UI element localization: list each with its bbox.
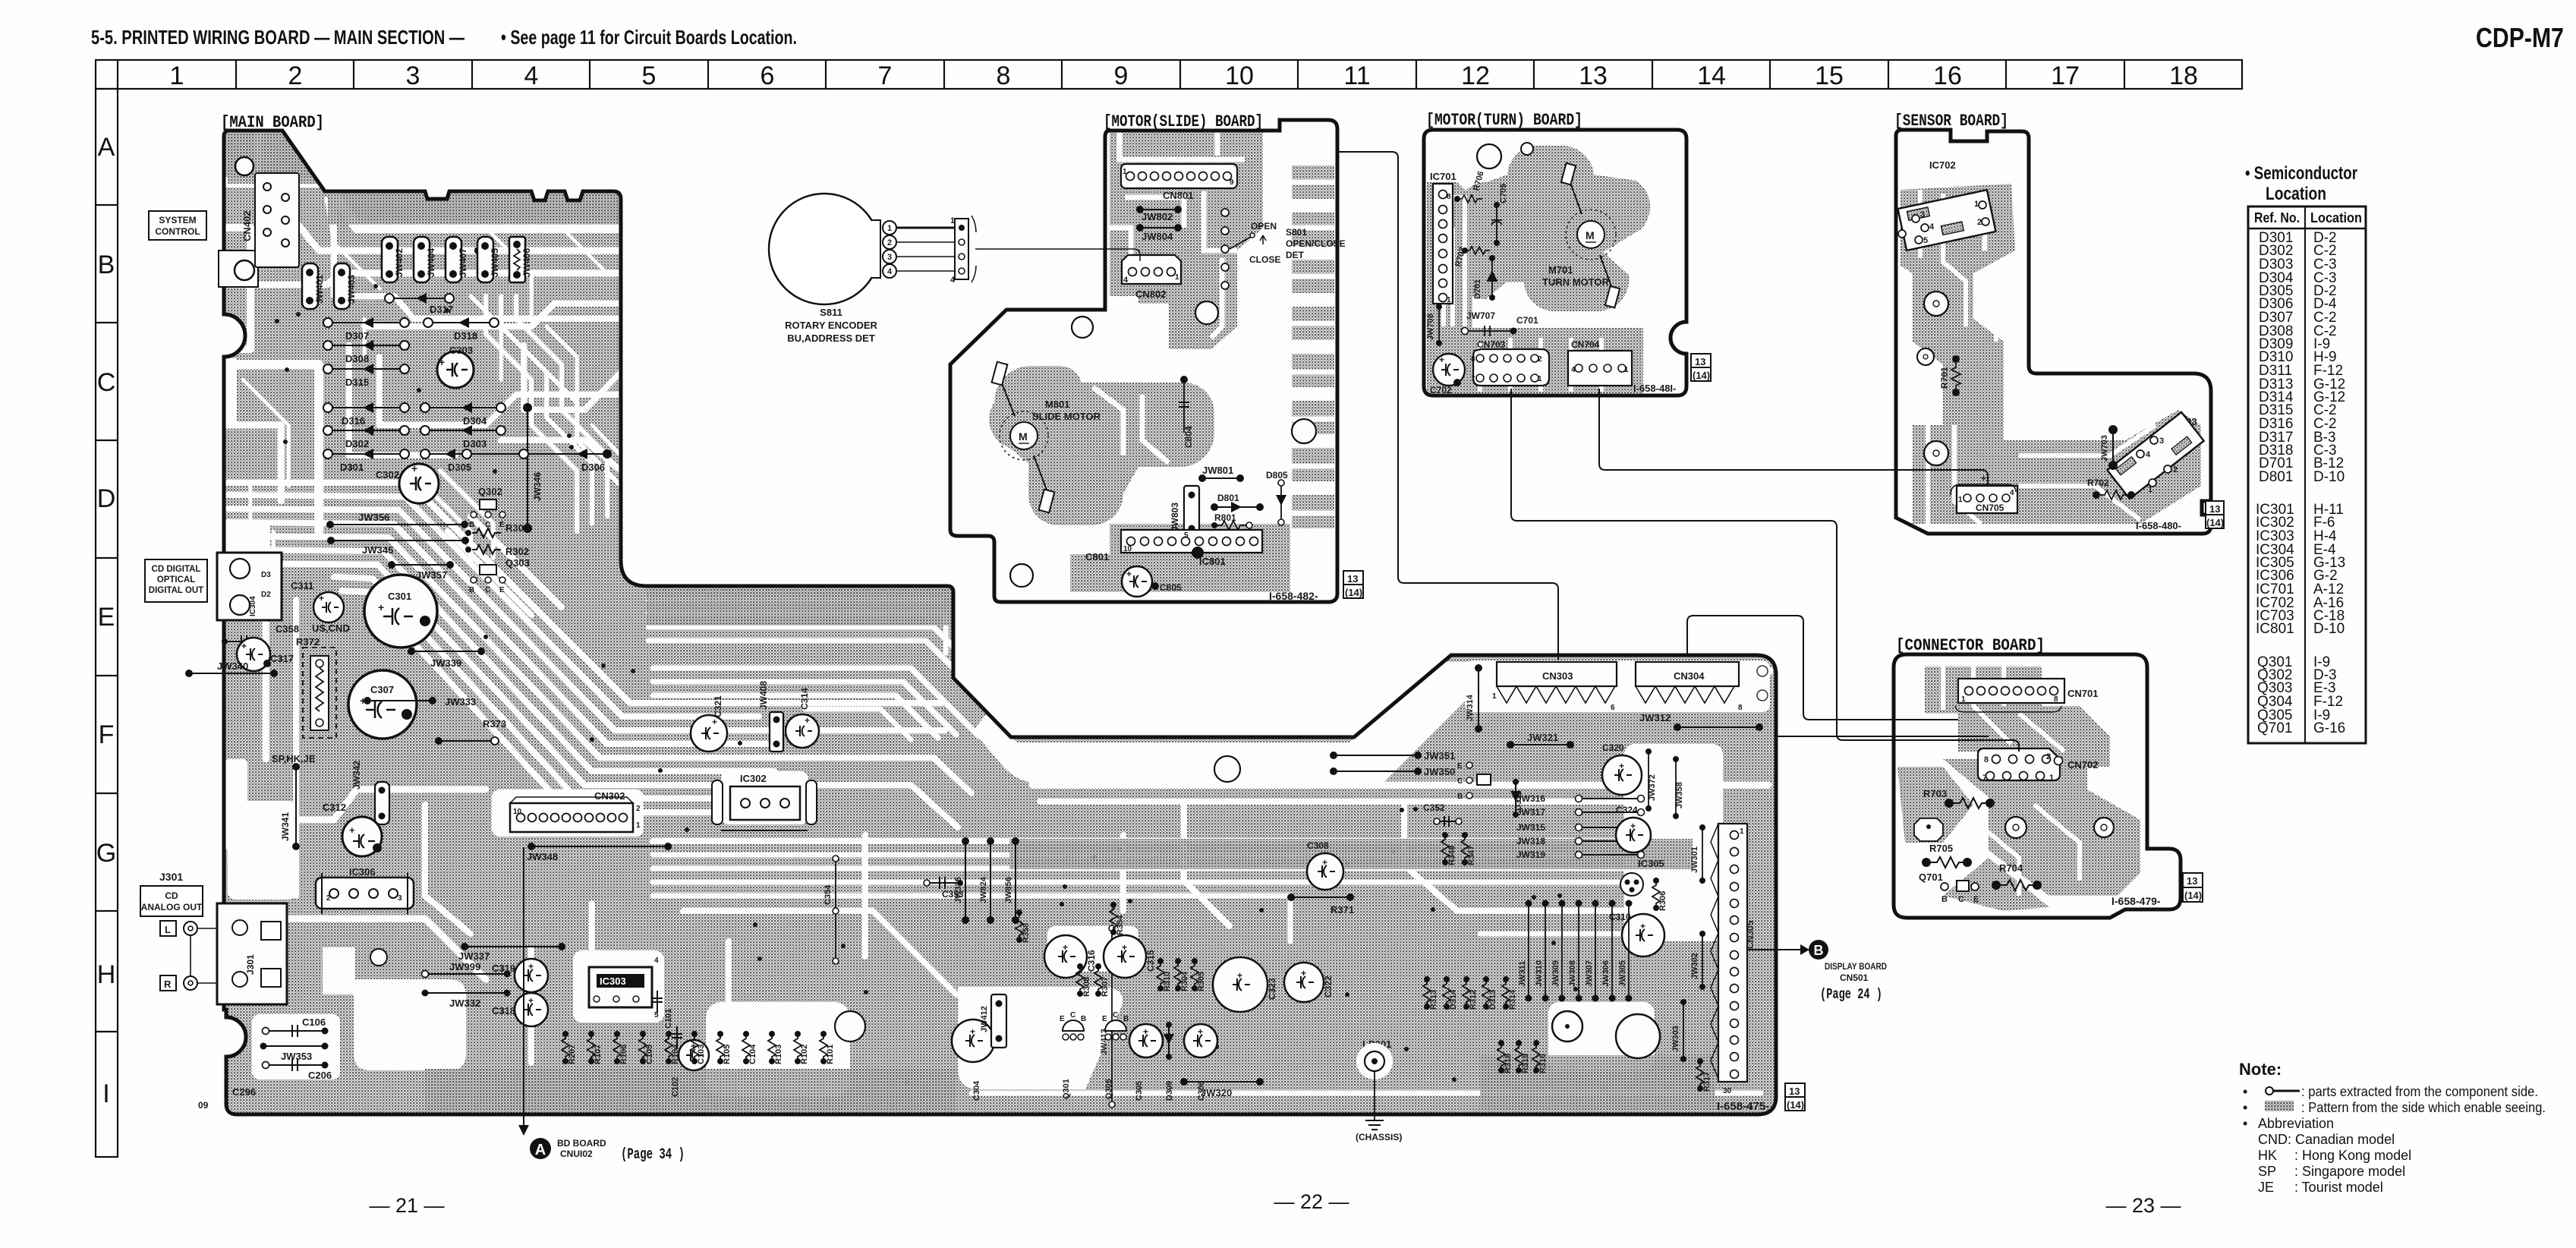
transistor Q305 bbox=[1105, 1020, 1126, 1031]
svg-text:R106: R106 bbox=[619, 1045, 628, 1064]
svg-text:C: C bbox=[485, 586, 490, 594]
svg-text:— 22 —: — 22 — bbox=[1274, 1190, 1349, 1213]
corner pads top-right bbox=[1757, 666, 1768, 676]
svg-text:2: 2 bbox=[288, 61, 303, 90]
connector CN305 bbox=[1718, 824, 1747, 1082]
svg-text:JW309: JW309 bbox=[1551, 960, 1560, 987]
svg-text:3: 3 bbox=[2159, 436, 2164, 446]
white trace channels: bottom section bbox=[228, 600, 1768, 1093]
svg-text:R306: R306 bbox=[1658, 891, 1667, 911]
svg-text:C: C bbox=[1457, 777, 1463, 786]
capacitor C320 bbox=[1602, 755, 1642, 795]
svg-text:Location: Location bbox=[2266, 184, 2326, 204]
slide board holes bbox=[1072, 317, 1093, 338]
svg-text:D305: D305 bbox=[448, 462, 471, 473]
jumper JW407 bbox=[446, 237, 468, 282]
turn board body bbox=[1424, 130, 1686, 396]
wire: CN704 to CN705 bbox=[1599, 389, 1988, 486]
svg-text:+: + bbox=[411, 462, 417, 474]
svg-text:R703: R703 bbox=[1923, 788, 1947, 799]
svg-text:[CONNECTOR BOARD]: [CONNECTOR BOARD] bbox=[1896, 636, 2045, 655]
mounting hole pad below CN402 bbox=[219, 251, 258, 287]
connector CN303 bbox=[1497, 662, 1617, 686]
capacitor C804 bbox=[1183, 380, 1185, 433]
svg-text:4: 4 bbox=[1929, 222, 1935, 232]
svg-text:• Semiconductor: • Semiconductor bbox=[2245, 163, 2357, 184]
svg-text:R313: R313 bbox=[1429, 990, 1438, 1010]
capacitor C206 bbox=[266, 1064, 325, 1066]
svg-text:C353: C353 bbox=[942, 889, 964, 900]
svg-text:CD DIGITAL: CD DIGITAL bbox=[152, 565, 201, 574]
svg-text:ANALOG OUT: ANALOG OUT bbox=[141, 902, 203, 912]
svg-text:D-10: D-10 bbox=[2313, 469, 2345, 485]
svg-text:JW412: JW412 bbox=[980, 1006, 989, 1032]
svg-text:C702: C702 bbox=[1430, 385, 1452, 396]
semiconductor location table frame bbox=[2248, 206, 2366, 743]
svg-text:R: R bbox=[164, 979, 172, 990]
jumper JW406 with resistor bbox=[509, 237, 532, 282]
svg-text:1: 1 bbox=[1492, 692, 1497, 701]
svg-text:CN402: CN402 bbox=[241, 211, 253, 241]
svg-text:R702: R702 bbox=[2087, 477, 2109, 488]
diode D318 bbox=[424, 317, 499, 342]
svg-text:JW824: JW824 bbox=[979, 876, 988, 903]
svg-text:4: 4 bbox=[1571, 366, 1576, 374]
svg-text:7: 7 bbox=[1982, 774, 1987, 783]
capacitor C304 bbox=[952, 1020, 994, 1062]
turn board holes bbox=[1477, 144, 1501, 169]
svg-text:: Hong Kong model: : Hong Kong model bbox=[2294, 1148, 2411, 1163]
svg-text:CND: Canadian model: CND: Canadian model bbox=[2258, 1132, 2395, 1147]
jumper JW340 bbox=[189, 673, 274, 674]
svg-text:1: 1 bbox=[950, 216, 955, 225]
svg-text:4: 4 bbox=[654, 956, 659, 965]
svg-text:12: 12 bbox=[1461, 61, 1490, 90]
main board body (copper pattern) bbox=[224, 131, 1776, 1114]
svg-text:JW358: JW358 bbox=[1675, 782, 1684, 808]
svg-text:IC303: IC303 bbox=[600, 975, 626, 987]
resistor R305 bbox=[1191, 961, 1198, 988]
jumper JW312 bbox=[1677, 726, 1759, 728]
svg-text:CN701: CN701 bbox=[2067, 688, 2098, 699]
svg-text:Q303: Q303 bbox=[505, 557, 530, 569]
svg-text:C308: C308 bbox=[1307, 840, 1329, 851]
svg-text:Q301: Q301 bbox=[1062, 1079, 1071, 1099]
svg-text:JW332: JW332 bbox=[449, 997, 480, 1009]
svg-text:C: C bbox=[97, 368, 116, 397]
svg-text:D306: D306 bbox=[581, 462, 605, 473]
svg-text:C701: C701 bbox=[1516, 315, 1538, 326]
svg-text:C104: C104 bbox=[748, 1044, 757, 1064]
svg-text:1: 1 bbox=[636, 821, 641, 830]
svg-text:JW321: JW321 bbox=[1527, 732, 1558, 743]
svg-text:Q305: Q305 bbox=[1104, 1079, 1113, 1099]
svg-text:C315: C315 bbox=[1145, 950, 1156, 972]
svg-text:D309: D309 bbox=[1165, 1081, 1174, 1101]
svg-text:JW316: JW316 bbox=[1516, 793, 1545, 804]
svg-text:: parts extracted from the com: : parts extracted from the component sid… bbox=[2301, 1084, 2538, 1099]
svg-text:C311: C311 bbox=[291, 580, 313, 591]
svg-text:SLIDE MOTOR: SLIDE MOTOR bbox=[1032, 411, 1101, 422]
svg-text:B: B bbox=[1123, 1015, 1129, 1023]
left ruler grid bbox=[96, 89, 118, 1157]
svg-text:2: 2 bbox=[1538, 355, 1542, 364]
switch S801 open/close detect bbox=[1221, 209, 1229, 216]
svg-text:D318: D318 bbox=[454, 330, 477, 342]
sheet ref box 13/(14) slide board bbox=[1343, 571, 1363, 585]
svg-text:C: C bbox=[1070, 1011, 1075, 1020]
IC303 bbox=[589, 967, 652, 1007]
jumper JW345 bbox=[327, 537, 469, 556]
svg-text:(14): (14) bbox=[2206, 517, 2224, 528]
svg-text:+: + bbox=[1439, 355, 1444, 365]
svg-text:JW803: JW803 bbox=[1170, 503, 1180, 531]
svg-text:09: 09 bbox=[198, 1100, 209, 1111]
svg-text:R319: R319 bbox=[1521, 1054, 1530, 1073]
svg-text:4: 4 bbox=[1123, 276, 1129, 285]
svg-text:C352: C352 bbox=[1423, 802, 1445, 813]
svg-text:DIGITAL OUT: DIGITAL OUT bbox=[149, 586, 203, 595]
svg-text:CN801: CN801 bbox=[1163, 190, 1193, 201]
svg-text:C805: C805 bbox=[1160, 582, 1182, 593]
svg-text:9: 9 bbox=[1114, 61, 1129, 90]
svg-text:ROTARY ENCODER: ROTARY ENCODER bbox=[785, 320, 877, 331]
connector CN802 bbox=[1122, 255, 1181, 284]
svg-text:(Page 34 ): (Page 34 ) bbox=[621, 1146, 685, 1164]
svg-text:JW804: JW804 bbox=[1142, 231, 1173, 242]
svg-text:R316: R316 bbox=[1538, 1054, 1548, 1073]
svg-text:R101: R101 bbox=[826, 1045, 835, 1064]
svg-text:(14): (14) bbox=[2184, 890, 2202, 901]
svg-text:JW302: JW302 bbox=[1690, 953, 1699, 979]
svg-text:Abbreviation: Abbreviation bbox=[2258, 1116, 2334, 1131]
svg-text:CN802: CN802 bbox=[1135, 288, 1166, 300]
svg-text:CN304: CN304 bbox=[1674, 670, 1705, 682]
svg-text:D302: D302 bbox=[345, 438, 369, 449]
svg-text:+: + bbox=[378, 601, 384, 613]
svg-text:B: B bbox=[1457, 793, 1463, 801]
white channels in top block bbox=[1093, 132, 1334, 513]
svg-text:CNUI02: CNUI02 bbox=[560, 1149, 593, 1159]
capacitor C323 bbox=[1213, 957, 1268, 1012]
svg-text:1: 1 bbox=[170, 61, 184, 90]
slide board copper: bottom strip bbox=[1070, 524, 1290, 592]
svg-text:DISPLAY BOARD: DISPLAY BOARD bbox=[1825, 961, 1887, 972]
motor M801 slide motor bbox=[1000, 411, 1048, 460]
table rows bbox=[2256, 230, 2345, 736]
resistor R373 bbox=[439, 740, 495, 742]
sensor copper: horizontal band to IC703 bbox=[2004, 410, 2201, 524]
svg-text:R354: R354 bbox=[1116, 915, 1125, 935]
svg-text:D805: D805 bbox=[1266, 470, 1288, 481]
svg-text:R801: R801 bbox=[1214, 512, 1236, 523]
jumper JW804 bbox=[1140, 227, 1178, 228]
svg-text:R304: R304 bbox=[1180, 971, 1189, 991]
capacitor C106 bbox=[266, 1030, 325, 1032]
svg-text:BD BOARD: BD BOARD bbox=[557, 1138, 606, 1149]
svg-text:A: A bbox=[98, 133, 115, 162]
svg-text:[SENSOR BOARD]: [SENSOR BOARD] bbox=[1894, 112, 2008, 131]
svg-text:C324: C324 bbox=[1616, 805, 1638, 815]
svg-text:C319: C319 bbox=[492, 963, 515, 974]
jumpers JW311..JW305 bbox=[1528, 903, 1529, 998]
big white component areas bbox=[225, 524, 1770, 1097]
svg-text:G: G bbox=[96, 839, 116, 868]
wire: CN304 to connector board bbox=[1687, 616, 1958, 720]
resistor R306 bbox=[1652, 881, 1660, 908]
svg-text:(CHASSIS): (CHASSIS) bbox=[1356, 1132, 1402, 1142]
svg-text:R303: R303 bbox=[505, 522, 529, 534]
svg-text:4: 4 bbox=[887, 267, 893, 276]
jumper JW801 bbox=[1202, 477, 1240, 479]
svg-text:+: + bbox=[970, 1026, 975, 1037]
svg-text:2: 2 bbox=[326, 894, 331, 903]
capacitor C319 bbox=[515, 959, 548, 992]
capacitor C102 bbox=[679, 1040, 709, 1070]
svg-text:C318: C318 bbox=[492, 1005, 515, 1016]
diode D301 bbox=[323, 449, 409, 473]
motor M701 bbox=[1566, 210, 1616, 260]
svg-text:C101: C101 bbox=[664, 1009, 673, 1029]
sheet ref box 13/(14) main board bbox=[1785, 1083, 1805, 1097]
svg-text:JW305: JW305 bbox=[1618, 960, 1627, 987]
svg-text:Note:: Note: bbox=[2239, 1060, 2282, 1079]
capacitor C306 bbox=[1184, 1024, 1217, 1057]
svg-text:+: + bbox=[1063, 942, 1068, 953]
svg-text:C304: C304 bbox=[972, 1080, 981, 1101]
svg-text:JW345: JW345 bbox=[362, 544, 393, 556]
svg-text:18: 18 bbox=[2169, 61, 2198, 90]
svg-text:JW408: JW408 bbox=[758, 681, 769, 710]
svg-text:D2: D2 bbox=[261, 591, 271, 599]
svg-text:B: B bbox=[469, 521, 474, 529]
svg-text:(14): (14) bbox=[1693, 370, 1710, 381]
svg-text:JW353: JW353 bbox=[281, 1051, 312, 1062]
svg-text:C307: C307 bbox=[370, 684, 394, 695]
turn board copper: motor blob bbox=[1457, 146, 1650, 311]
darker copper patches bbox=[228, 131, 1715, 1111]
svg-text:IC305: IC305 bbox=[1638, 858, 1664, 869]
svg-text:14: 14 bbox=[1697, 61, 1726, 90]
svg-text:4: 4 bbox=[2146, 450, 2151, 459]
resistors R348/R347 bbox=[1441, 835, 1449, 862]
svg-text:R105: R105 bbox=[723, 1045, 732, 1064]
sheet ref box 13/(14) connector board bbox=[2183, 873, 2203, 887]
svg-text:OPEN: OPEN bbox=[1251, 221, 1277, 232]
svg-text:I-658-48I-: I-658-48I- bbox=[1633, 383, 1676, 394]
svg-text:1: 1 bbox=[1447, 296, 1451, 304]
svg-text:JW407: JW407 bbox=[458, 248, 468, 277]
svg-text:C801: C801 bbox=[1085, 551, 1109, 563]
svg-text:2: 2 bbox=[1977, 218, 1982, 227]
svg-text:JW406: JW406 bbox=[521, 248, 532, 277]
svg-text:CLOSE: CLOSE bbox=[1249, 254, 1280, 265]
svg-text:E: E bbox=[1102, 1015, 1107, 1023]
svg-text:D304: D304 bbox=[463, 415, 487, 427]
svg-text:+: + bbox=[241, 641, 247, 651]
svg-text:R102: R102 bbox=[800, 1045, 809, 1064]
svg-text:17: 17 bbox=[2051, 61, 2080, 90]
svg-text:8: 8 bbox=[1471, 355, 1475, 364]
svg-text:1: 1 bbox=[887, 224, 892, 233]
white trace channels: diagonal bus sweep bbox=[228, 483, 972, 827]
svg-text:JW333: JW333 bbox=[445, 696, 476, 708]
resistor R307 bbox=[1094, 966, 1102, 994]
svg-text:JW356: JW356 bbox=[358, 512, 389, 523]
jumper JW348 bbox=[531, 846, 668, 847]
svg-text:D316: D316 bbox=[342, 415, 365, 427]
svg-text:M701: M701 bbox=[1548, 264, 1573, 276]
svg-text:+: + bbox=[319, 593, 324, 604]
capacitor C322 bbox=[1284, 963, 1324, 1002]
diode D302 bbox=[323, 425, 409, 449]
svg-text:2: 2 bbox=[2046, 752, 2051, 761]
jumper JW402 bbox=[382, 237, 405, 282]
svg-text:6: 6 bbox=[1611, 704, 1615, 712]
white trace channels: top-left block bbox=[224, 131, 621, 531]
svg-text:+: + bbox=[1126, 569, 1132, 579]
jumper JW341 bbox=[295, 767, 297, 846]
svg-text:1: 1 bbox=[1958, 496, 1963, 504]
svg-text:IC701: IC701 bbox=[1430, 171, 1456, 182]
connector CN304 bbox=[1636, 662, 1739, 686]
svg-text:CONTROL: CONTROL bbox=[155, 226, 200, 237]
svg-text:1: 1 bbox=[1974, 200, 1979, 209]
resistor R303 bbox=[465, 522, 529, 537]
svg-text:+: + bbox=[1143, 1026, 1148, 1037]
svg-text:6: 6 bbox=[761, 61, 775, 90]
svg-text:D315: D315 bbox=[345, 377, 369, 388]
top ruler grid bbox=[96, 60, 2242, 89]
svg-text:D313: D313 bbox=[1488, 990, 1497, 1010]
svg-text:SP,HK,JE: SP,HK,JE bbox=[272, 753, 316, 764]
svg-text:C321: C321 bbox=[713, 695, 723, 717]
capacitor C307 bbox=[348, 670, 417, 739]
ruler column numbers bbox=[170, 61, 2198, 90]
svg-text:C314: C314 bbox=[799, 688, 810, 710]
diode D305 bbox=[420, 449, 524, 473]
L jack bbox=[160, 921, 176, 936]
svg-text:CN303: CN303 bbox=[1542, 670, 1573, 682]
jumper JW303 bbox=[1683, 1002, 1684, 1059]
svg-text:16: 16 bbox=[1933, 61, 1962, 90]
connector board copper: top block bbox=[1925, 667, 2110, 793]
svg-text:JW318: JW318 bbox=[1516, 836, 1545, 846]
svg-text:OPTICAL: OPTICAL bbox=[157, 575, 195, 585]
capacitor C308 bbox=[1307, 853, 1343, 890]
svg-text:JW339: JW339 bbox=[430, 657, 461, 669]
svg-text:•: • bbox=[2243, 1084, 2247, 1099]
svg-text:1: 1 bbox=[1538, 375, 1542, 383]
svg-text:E: E bbox=[98, 603, 115, 632]
connector board body bbox=[1894, 654, 2181, 918]
svg-text:JE: JE bbox=[2258, 1180, 2274, 1195]
connector CN801 bbox=[1121, 164, 1237, 188]
svg-text:— 21 —: — 21 — bbox=[369, 1194, 444, 1217]
diode D307 bbox=[323, 317, 409, 342]
svg-text:C103: C103 bbox=[697, 1045, 706, 1064]
jumper JW356 bbox=[326, 512, 468, 528]
svg-text:D314: D314 bbox=[1449, 989, 1458, 1010]
capacitor C705 bbox=[1496, 205, 1497, 243]
sensor board holes bbox=[1924, 292, 1948, 316]
svg-text:+: + bbox=[1198, 1026, 1203, 1037]
capacitor C315 bbox=[1104, 935, 1146, 978]
capacitor C310 bbox=[1622, 914, 1664, 956]
svg-text:JW401: JW401 bbox=[314, 275, 325, 304]
svg-text:JW319: JW319 bbox=[1516, 849, 1545, 860]
connector CN702 bbox=[1978, 748, 2060, 780]
svg-text:US,CND: US,CND bbox=[312, 622, 350, 634]
svg-text:+: + bbox=[1301, 968, 1306, 979]
svg-text:R373: R373 bbox=[483, 718, 506, 730]
svg-text:[MOTOR(TURN) BOARD]: [MOTOR(TURN) BOARD] bbox=[1426, 111, 1582, 130]
svg-text:E: E bbox=[1060, 1015, 1065, 1023]
svg-text:R312: R312 bbox=[1469, 990, 1478, 1010]
svg-text:[MOTOR(SLIDE) BOARD]: [MOTOR(SLIDE) BOARD] bbox=[1104, 112, 1263, 131]
svg-text:JW341: JW341 bbox=[280, 812, 291, 841]
white trace channels: ledge strip bbox=[648, 600, 987, 739]
jumper JW708 bbox=[1438, 307, 1440, 343]
sheet ref box 13/(14) sensor board bbox=[2206, 501, 2224, 515]
J301 connector tab bbox=[217, 903, 287, 1004]
svg-text:5: 5 bbox=[1184, 531, 1189, 540]
svg-text:13: 13 bbox=[1695, 356, 1705, 367]
svg-text:D801: D801 bbox=[2259, 469, 2293, 485]
svg-text:CN305: CN305 bbox=[1745, 920, 1756, 949]
svg-text:C305: C305 bbox=[1135, 1081, 1144, 1101]
svg-text:CDP-M7: CDP-M7 bbox=[2476, 22, 2564, 53]
jumper JW346 bbox=[523, 403, 543, 533]
svg-text:R308: R308 bbox=[1082, 977, 1091, 997]
svg-text:R107: R107 bbox=[594, 1045, 603, 1064]
svg-text:S811: S811 bbox=[820, 307, 842, 318]
svg-text:C301: C301 bbox=[388, 591, 411, 602]
svg-text:A: A bbox=[535, 1142, 546, 1158]
svg-text:1: 1 bbox=[2148, 485, 2152, 494]
resistor R310 bbox=[1157, 961, 1164, 988]
svg-text:+: + bbox=[1640, 921, 1645, 931]
hex mounting pad bbox=[1914, 818, 1943, 841]
svg-text:•: • bbox=[2243, 1100, 2247, 1115]
svg-text:IC801: IC801 bbox=[2256, 621, 2294, 637]
svg-text:B: B bbox=[98, 251, 115, 279]
svg-text:R317: R317 bbox=[1702, 1072, 1712, 1092]
svg-text:E: E bbox=[499, 586, 505, 594]
diode D317 bbox=[385, 293, 454, 315]
svg-text:JW346: JW346 bbox=[532, 472, 543, 501]
jumper JW350 bbox=[1334, 771, 1418, 772]
svg-text:8: 8 bbox=[1447, 193, 1451, 201]
svg-text:I-658-480-: I-658-480- bbox=[2136, 520, 2181, 531]
svg-text:7: 7 bbox=[878, 61, 893, 90]
svg-text:C303: C303 bbox=[449, 345, 473, 356]
transistor Q302 bbox=[469, 486, 505, 529]
svg-text:B: B bbox=[1814, 943, 1824, 958]
svg-text:JW310: JW310 bbox=[1535, 960, 1544, 987]
svg-text:+: + bbox=[1981, 473, 1986, 484]
svg-text:+: + bbox=[439, 356, 445, 368]
svg-text:B: B bbox=[1941, 895, 1948, 904]
encoder leads bbox=[896, 227, 955, 229]
svg-text:IC306: IC306 bbox=[349, 866, 376, 878]
svg-text:M: M bbox=[1586, 229, 1595, 241]
svg-text:C106: C106 bbox=[302, 1016, 326, 1028]
svg-text:J301: J301 bbox=[159, 871, 183, 883]
svg-text:IC801: IC801 bbox=[1199, 556, 1226, 567]
white trace channels: staircase in block bbox=[425, 296, 621, 562]
slide board copper: top block bbox=[1110, 132, 1263, 349]
